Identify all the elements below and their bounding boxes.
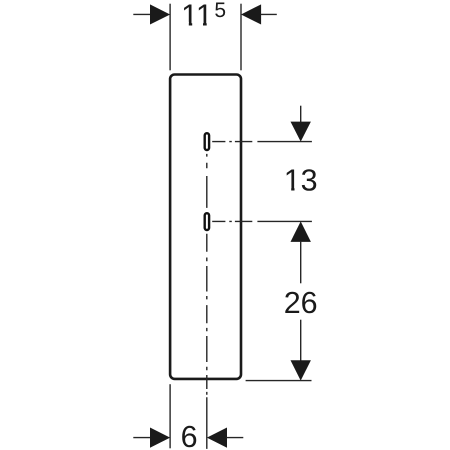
leader line 13 top [300, 106, 302, 123]
arrow 6 right [207, 428, 227, 448]
label 11 serif masks [182, 22, 189, 26]
dimension line 26 upper [300, 241, 302, 283]
slot centerline upper [212, 141, 252, 143]
arrow 6 left [150, 428, 170, 448]
arrow top right [241, 4, 261, 24]
dimension line top left tail [133, 13, 150, 15]
slot lower [205, 213, 209, 230]
svg-text:5: 5 [214, 0, 226, 22]
dimension line bottom right tail [227, 437, 244, 439]
arrow 13 bottom / 26 top [291, 221, 311, 242]
slot upper [205, 133, 209, 150]
dimension line bottom left tail [133, 437, 150, 439]
arrow top left [150, 4, 170, 24]
dimension line 26 lower [300, 320, 302, 361]
dimension line top right tail [261, 13, 277, 15]
svg-text:6: 6 [181, 420, 198, 450]
svg-text:11: 11 [181, 0, 213, 32]
extension line top left [169, 4, 171, 71]
vertical centerline [206, 154, 208, 449]
slot centerline lower [212, 220, 252, 222]
svg-text:26: 26 [284, 286, 318, 320]
extension line bottom left [169, 384, 171, 448]
arrow 13 top [291, 122, 311, 142]
dimension reference line bottom right [246, 380, 312, 382]
arrow 26 bottom [291, 360, 311, 380]
cabinet outline [170, 75, 241, 379]
label 13 serif masks [285, 188, 291, 192]
dimension reference line lower [257, 220, 312, 222]
dimension reference line upper [257, 141, 312, 143]
extension line top right [240, 4, 242, 71]
svg-text:13: 13 [284, 164, 318, 198]
